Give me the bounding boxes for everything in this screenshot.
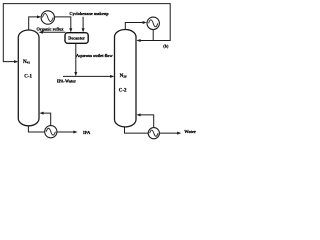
svg-text:IPA: IPA [83,130,91,135]
svg-text:N26: N26 [120,74,127,79]
svg-text:IPA-Water: IPA-Water [57,79,76,84]
svg-text:Cyclohexane makeup: Cyclohexane makeup [69,11,109,16]
svg-text:Decanter: Decanter [68,36,85,41]
svg-text:C-2: C-2 [119,89,127,94]
svg-text:Organic reflux: Organic reflux [36,26,64,31]
svg-text:(b): (b) [163,44,169,49]
svg-text:Water: Water [184,129,196,134]
svg-text:C-1: C-1 [24,75,32,80]
svg-text:Aqueous outlet flow: Aqueous outlet flow [76,53,113,58]
svg-text:N41: N41 [23,60,30,65]
